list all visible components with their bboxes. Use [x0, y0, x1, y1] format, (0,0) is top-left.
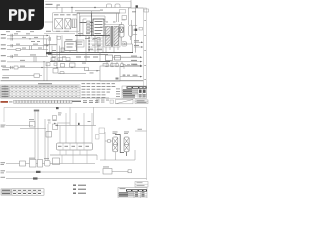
regulator block Q101: [65, 42, 77, 51]
bottom frame bus: [1, 80, 144, 82]
heatsink block: [100, 66, 120, 81]
small parts between buses a: [51, 58, 55, 61]
cluster small box b: [53, 124, 58, 130]
label above: [103, 166, 109, 169]
small box on wire: [85, 67, 89, 70]
output wire arrow 3: [140, 65, 142, 67]
verticals bus to IC bar: [60, 113, 92, 143]
title bar dark: [127, 86, 147, 88]
output labels right: [131, 56, 137, 65]
lower wire C: [3, 75, 43, 77]
module text labels: [54, 14, 77, 15]
label PC901: [113, 132, 118, 135]
coupler connect wire: [115, 135, 127, 157]
label row2: [1, 170, 6, 173]
header column fill: [1, 85, 11, 98]
tick marks between rows right: [123, 66, 125, 76]
ladder cell text: [92, 39, 101, 46]
marks row B right: [123, 75, 138, 76]
header text cols right: [96, 98, 109, 103]
box top right cluster: [103, 169, 112, 175]
PDF badge: [0, 0, 44, 30]
bridge rectifier module box: [53, 13, 80, 31]
connector CN103 two-pin: [122, 42, 127, 46]
mid small marks: [118, 119, 131, 120]
small parts below bus2: [46, 63, 57, 66]
aux box in module: [72, 19, 77, 27]
top connector marks: [34, 110, 39, 112]
arrow up1: [141, 42, 143, 48]
winding pin labels: [106, 21, 116, 24]
capacitor row 5: [11, 55, 13, 58]
left of title block small text: [116, 89, 120, 97]
label near right border: [138, 128, 143, 131]
page ref box top right: [144, 9, 149, 12]
parts table page 1: [1, 83, 81, 98]
lower area wire A: [3, 67, 87, 69]
dangling parts below bus: [106, 62, 123, 67]
TP label row 1 page2: [1, 125, 6, 128]
wire from box: [112, 170, 128, 172]
left bus verticals: [44, 35, 53, 62]
IC U101 internal text: [95, 21, 103, 34]
wire PC101 bottom: [122, 37, 133, 53]
title table rows: [122, 89, 138, 94]
top AC bus wire: [44, 8, 131, 11]
table header marks: [11, 85, 77, 88]
labels right upper: [134, 40, 139, 46]
resistor row 4: [16, 49, 21, 51]
right margin zone marks: [144, 20, 146, 80]
small box cluster B: [53, 63, 75, 73]
header revision box pair 5: [37, 100, 42, 103]
transformer T101 primary winding: [106, 27, 111, 46]
inter-row tick a: [30, 46, 32, 50]
long vertical wires left: [35, 110, 48, 164]
wire row B: [58, 73, 86, 75]
connector ladder rungs: [91, 38, 103, 50]
inter-row tick b: [34, 57, 36, 62]
right side dark component: [135, 29, 138, 31]
dark stub bus: [44, 44, 57, 46]
link verticals below ground bus: [57, 51, 100, 67]
legend entries center bottom: [73, 185, 86, 194]
small component above PC101: [122, 16, 127, 20]
IC U101 pin stubs: [90, 21, 106, 33]
sheet frame page 2: [4, 107, 147, 180]
aux line labels: [46, 31, 69, 32]
long vertical right: [135, 8, 137, 53]
photocoupler PC901: [113, 137, 118, 152]
component box row1 b: [30, 160, 37, 168]
text right of tabs: [132, 11, 136, 12]
inter-row text: [31, 40, 40, 43]
top dark bus to IC: [77, 12, 120, 14]
mid box text: [77, 42, 83, 45]
header slash box: [116, 100, 134, 104]
mark near x88: [88, 120, 91, 123]
output wire row B right: [120, 76, 140, 78]
component box row1 d: [45, 161, 51, 167]
junction cluster dark: [46, 52, 52, 54]
wire joining: [20, 123, 70, 128]
main ground bus: [48, 52, 133, 54]
stamp text: [137, 100, 147, 103]
badge letter P: [9, 9, 17, 21]
IC bar text: [58, 146, 89, 147]
wire row1: [6, 163, 95, 165]
wire row 4: [7, 49, 48, 51]
L connector to lower wire: [96, 155, 98, 160]
dark tick mid verticals: [78, 123, 80, 125]
revision box text: [137, 182, 145, 186]
arrow mid: [97, 70, 99, 72]
transformer T101 core: [111, 26, 112, 47]
badge letter F: [29, 9, 35, 21]
dark bar: [126, 189, 147, 191]
junction blob row2: [36, 171, 41, 173]
wires transformer pins: [100, 13, 126, 53]
secondary bus: [50, 61, 110, 63]
wire row 5: [7, 56, 48, 58]
capacitor C110: [129, 25, 133, 37]
header revision box pair 2: [19, 100, 24, 103]
output wire arrow 1: [140, 56, 142, 58]
wire TP1: [6, 124, 33, 126]
IC bar internal dividers: [63, 143, 84, 150]
output wire arrow 2: [140, 61, 142, 63]
cap tick wire A: [11, 66, 13, 69]
right side arrows upper: [134, 42, 141, 47]
secondary rectifier box D110: [106, 55, 113, 61]
fuse F101 label: [46, 4, 61, 6]
Q101 label: [66, 39, 74, 47]
bus below IC bar: [50, 154, 97, 156]
long wire to right border: [96, 178, 147, 180]
capacitor row 3: [11, 44, 13, 47]
IC U101 switching controller: [93, 19, 104, 36]
center vertical wires: [57, 35, 103, 61]
small box right of tab: [120, 10, 126, 14]
small parts between buses b: [58, 58, 63, 61]
cluster small box a: [53, 116, 57, 121]
grid lines: [1, 85, 81, 98]
small labels on wire: [48, 119, 57, 122]
bridge diode D101: [55, 19, 63, 29]
fuse tick: [56, 6, 58, 10]
text row under ground bus: [52, 57, 98, 58]
header stamp box far right: [135, 100, 148, 104]
header caption text: [72, 101, 81, 102]
arrow row 1: [47, 35, 49, 37]
resistor R901: [108, 140, 111, 142]
header revision box pair 3: [25, 100, 30, 103]
capacitor row 2: [11, 37, 13, 40]
wire row3: [6, 178, 96, 180]
wire bridge to bus: [44, 8, 72, 23]
junction dots wire A: [41, 67, 72, 68]
label row 2: [1, 37, 38, 39]
right side pin wires: [133, 26, 138, 35]
header revision box pair 7: [49, 100, 54, 103]
capacitor row 1: [11, 34, 13, 37]
node junction dots top bus: [71, 7, 95, 8]
junction dot row 6: [43, 61, 44, 62]
header revision box pair 8: [55, 100, 60, 103]
header red logo: [1, 101, 9, 103]
label PC902: [124, 132, 129, 135]
cap C901 tick: [49, 122, 50, 124]
transformer T101 secondary winding: [114, 27, 119, 46]
title block page 1: [122, 86, 147, 98]
header small text: [9, 101, 13, 102]
label Q901: [29, 118, 34, 121]
label wire C: [2, 77, 9, 78]
header revision box pair 10: [67, 100, 72, 103]
small component left of Q101: [61, 48, 64, 52]
junction dot row 2: [29, 38, 30, 39]
wire row 1: [7, 34, 48, 36]
junction dot bus: [56, 125, 57, 126]
nested wiring loops top center: [77, 11, 92, 53]
header revision box pair 4: [31, 100, 36, 103]
arrow row A right: [140, 66, 142, 68]
mid box left: [76, 40, 84, 47]
junction dots mid bus: [79, 35, 92, 36]
connector tab CN104: [115, 4, 120, 8]
badge letter D: [18, 9, 26, 21]
junction blob row3: [33, 177, 38, 179]
photocoupler PC902: [124, 137, 129, 152]
arrow row 3: [47, 45, 49, 47]
second ground bus: [48, 54, 108, 56]
label row 3: [1, 44, 38, 46]
bottom-left mini table page 2: [1, 189, 44, 195]
main IC bar page 2: [57, 143, 93, 150]
second small box D111: [115, 56, 121, 61]
tiny text left of heatsink: [82, 63, 94, 74]
label above heatsink: [103, 63, 116, 66]
label row 1: [1, 33, 30, 35]
cluster text: [58, 113, 62, 116]
labels above boxes: [29, 158, 49, 159]
aux line above rows: [44, 33, 75, 35]
header revision box pair 9: [61, 100, 66, 103]
header revision box pair 1: [14, 100, 19, 103]
component cluster Q901: [30, 122, 36, 128]
text above buses clutter: [52, 33, 102, 51]
box under bus: [53, 158, 60, 165]
header revision box pair 6: [43, 100, 48, 103]
junction blob on border: [56, 107, 59, 109]
revision box above title block: [135, 182, 148, 188]
output wire 2: [110, 61, 140, 63]
component on wire C: [34, 74, 40, 77]
distribution bus page2: [55, 125, 96, 127]
capacitor C105: [73, 20, 75, 29]
output wire +B: [113, 56, 141, 58]
component on wire B: [60, 72, 64, 74]
middle-bottom wire: [86, 70, 100, 72]
output wire 3: [125, 64, 140, 66]
cap tick pair mid: [49, 37, 51, 41]
small box mid rows: [57, 36, 61, 39]
component on wire A: [14, 66, 18, 69]
label row3: [1, 177, 6, 178]
text under badge: [6, 30, 34, 33]
small comp right: [128, 170, 132, 173]
label row 5: [1, 55, 36, 57]
label row 6: [1, 60, 25, 62]
second line turn: [87, 16, 106, 20]
rows: [118, 192, 134, 196]
wire cap top: [128, 8, 131, 44]
stubs IC to bus: [60, 150, 87, 164]
photocoupler PC101: [119, 25, 124, 38]
wire near right border: [135, 130, 147, 132]
dark mid bus: [75, 35, 110, 37]
component mark top right: [136, 5, 138, 7]
ladder pin marks: [88, 37, 90, 50]
label wire A: [1, 66, 25, 71]
sheet border page 1: [1, 2, 147, 99]
label row 4: [1, 48, 42, 50]
wire row 3: [7, 45, 48, 47]
table caption: [38, 83, 52, 84]
parts list text block: [82, 83, 116, 98]
output wire row A right: [120, 65, 140, 67]
vertical from top border: [70, 107, 94, 125]
wire row 6: [7, 61, 50, 63]
arrow row B right: [140, 76, 142, 78]
component box row1 c: [38, 160, 43, 168]
component Q902: [46, 132, 52, 138]
vertical bus at x91.5: [91, 13, 93, 36]
wire row 2: [7, 38, 48, 40]
wire row2: [6, 171, 100, 173]
relay RL101: [65, 19, 71, 29]
title block page 2: [118, 188, 147, 199]
wire bridge output dark: [80, 22, 94, 24]
small box under border b: [96, 135, 100, 140]
narrow box right: [97, 38, 100, 47]
top-right corner wires: [128, 0, 143, 8]
table cell marks: [2, 86, 9, 97]
header small box right: [110, 100, 114, 103]
mark inside heatsink: [116, 78, 119, 80]
small parts between buses c: [66, 57, 70, 60]
junction dot on wire: [54, 123, 55, 124]
connector pin boxes left of U101: [87, 21, 91, 33]
left stub to coupler: [105, 132, 113, 160]
tiny label left of tab: [100, 10, 103, 11]
connector tab CN102: [107, 4, 112, 8]
marks row A right: [123, 64, 138, 65]
transformer T101 outline: [104, 25, 120, 48]
verticals to bottom bus: [44, 63, 47, 81]
component box row1 a: [20, 161, 26, 166]
wire bottom of couplers: [100, 150, 135, 160]
small box under border: [99, 128, 105, 134]
small box +5V: [139, 28, 143, 31]
label row1: [1, 162, 6, 165]
